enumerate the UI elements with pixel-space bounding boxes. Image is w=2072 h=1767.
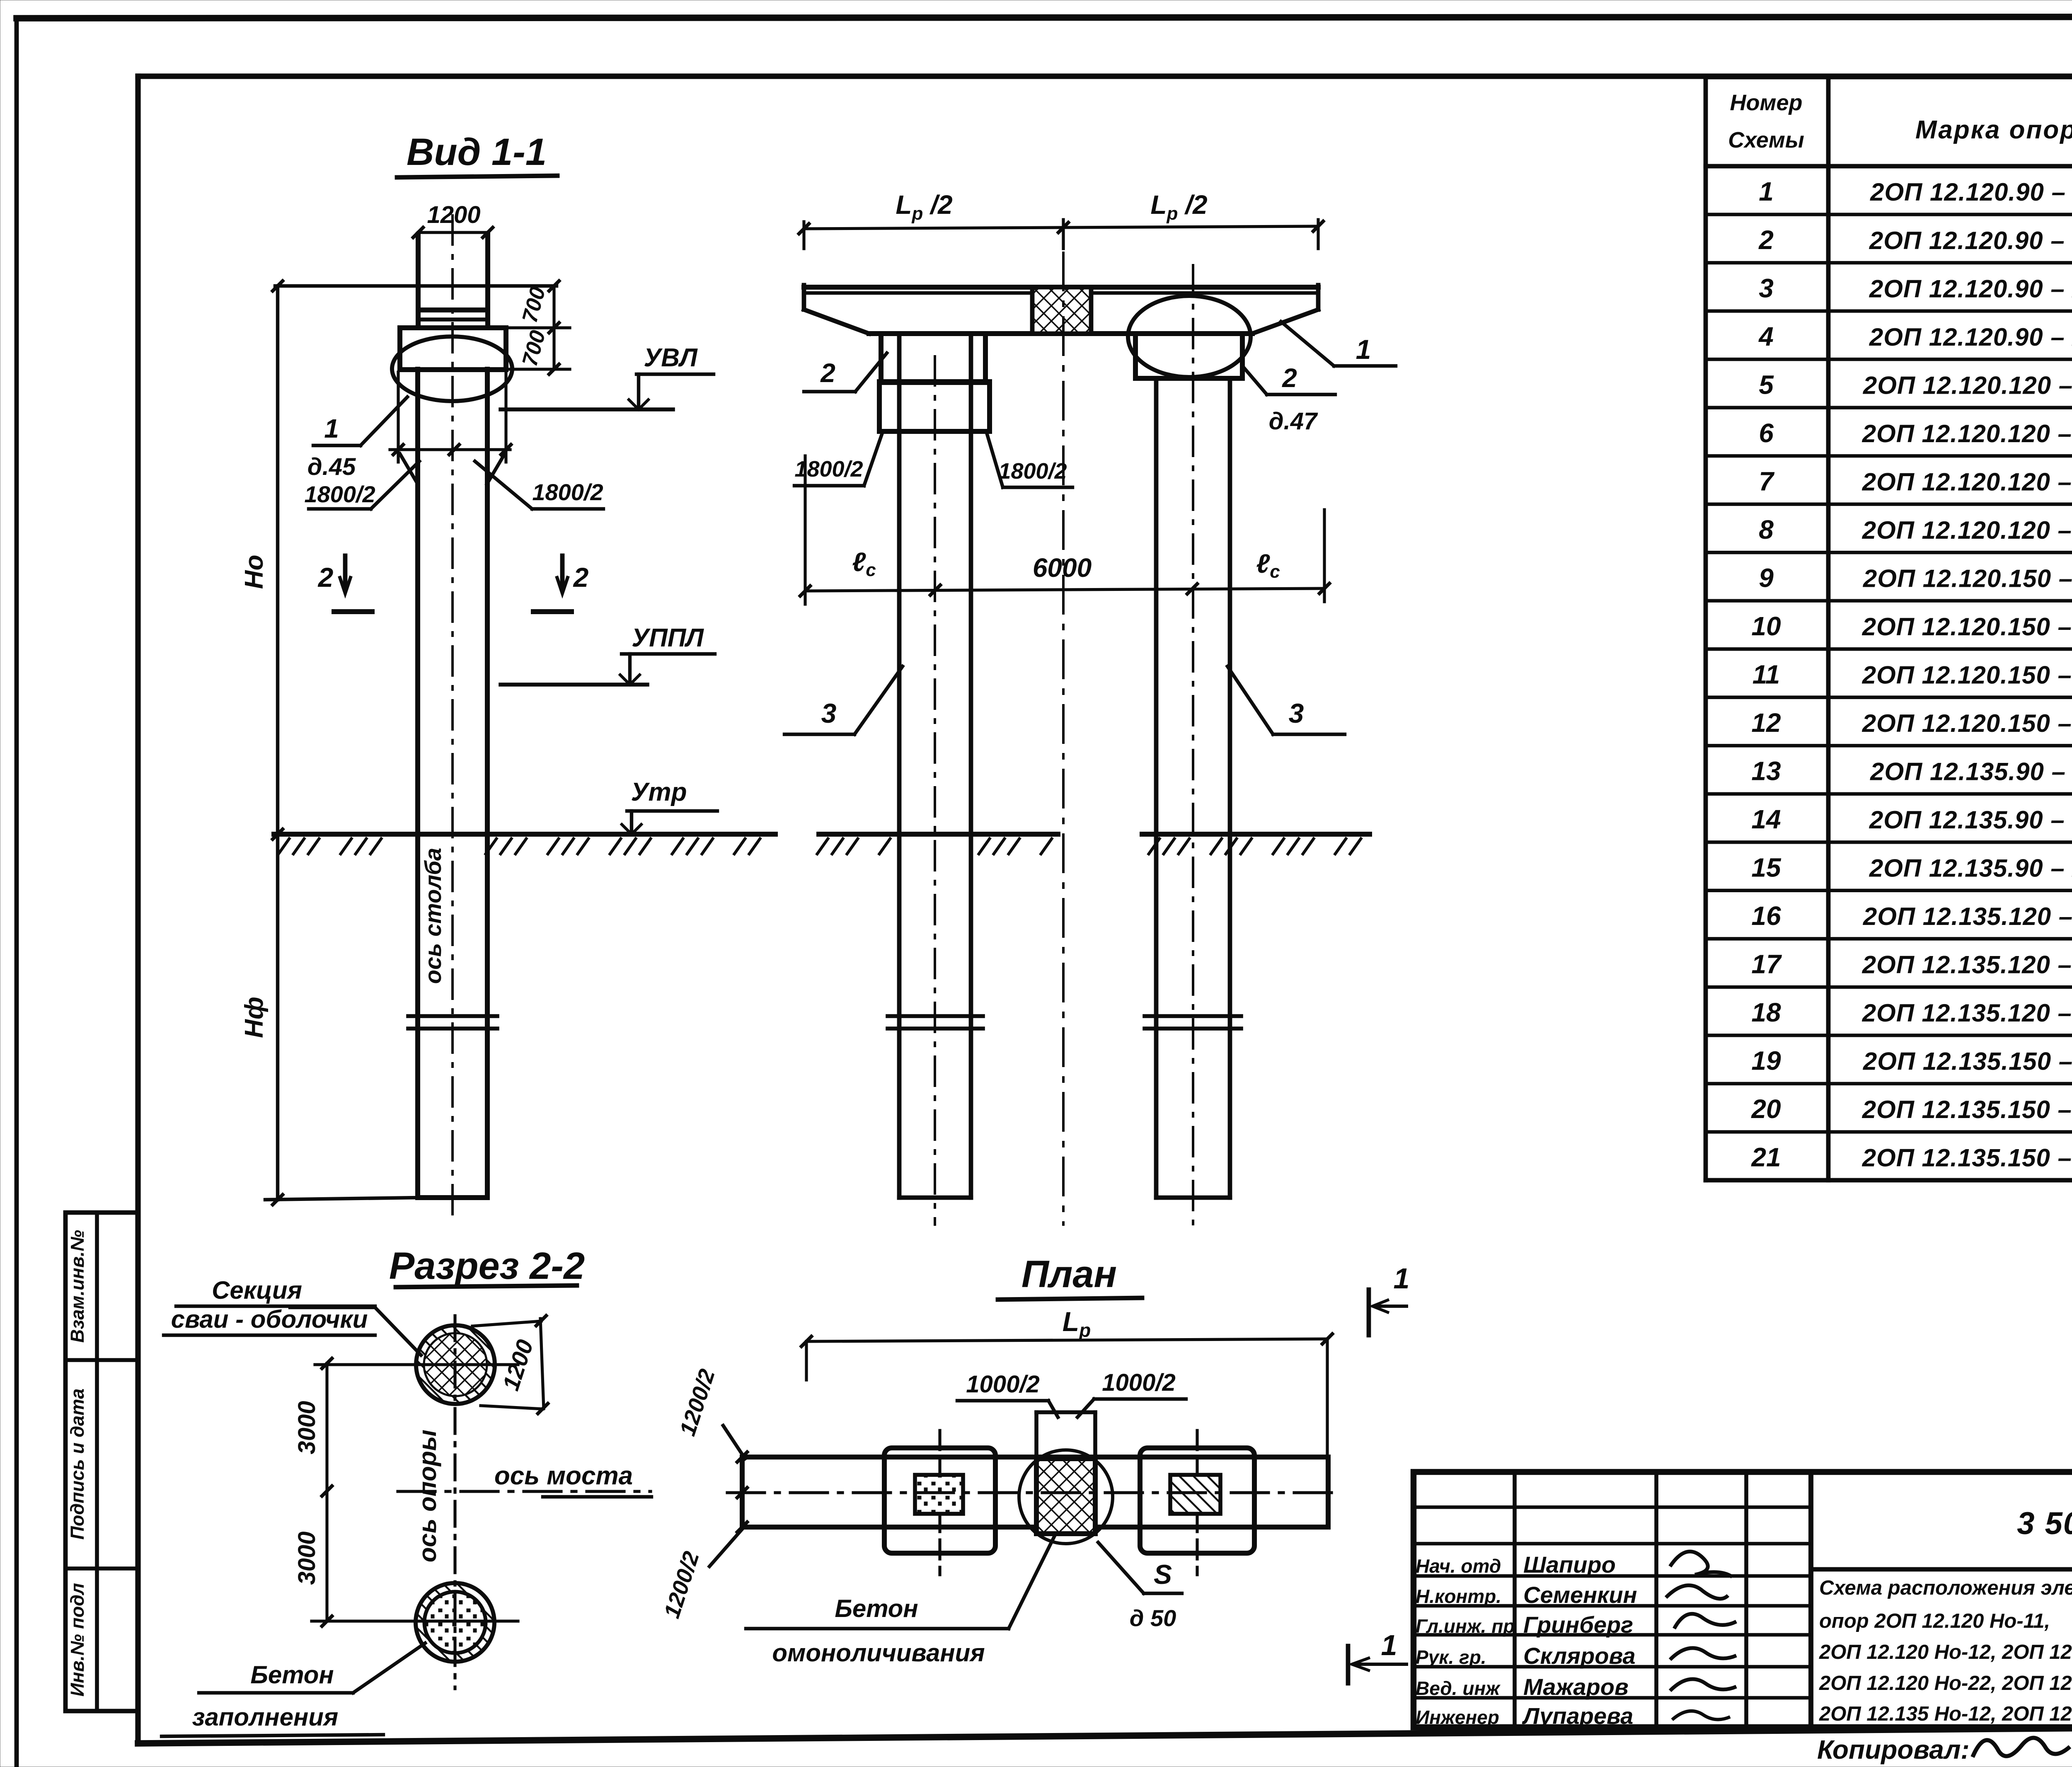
- svg-text:Вед. инж: Вед. инж: [1416, 1677, 1501, 1699]
- svg-text:Копировал:: Копировал:: [1817, 1735, 1970, 1765]
- svg-text:2ОП 12.120.90 – 11: 2ОП 12.120.90 – 11: [1870, 178, 2072, 206]
- ground line left view: [274, 832, 775, 837]
- plan left cap core: [915, 1475, 963, 1514]
- svg-text:Инженер: Инженер: [1416, 1706, 1499, 1728]
- table bottom border: [1706, 1178, 2072, 1183]
- svg-text:Инв.№ подл: Инв.№ подл: [67, 1583, 88, 1697]
- svg-text:2ОП 12.135.150 – 11: 2ОП 12.135.150 – 11: [1863, 1048, 2072, 1075]
- svg-text:Бетон: Бетон: [250, 1661, 334, 1689]
- right pile walls: [1154, 378, 1159, 1198]
- svg-text:УВЛ: УВЛ: [644, 344, 698, 372]
- left pile centerline: [934, 356, 936, 1225]
- table row 20 rule: [1706, 1082, 2072, 1085]
- left pile walls: [897, 334, 902, 1198]
- title block doc number rule: [1811, 1567, 2072, 1572]
- cap beam top chord: [804, 285, 1318, 290]
- svg-text:ось столба: ось столба: [420, 848, 446, 984]
- dim 1200 line: [418, 231, 488, 234]
- table row 3 rule: [1706, 261, 2072, 264]
- svg-text:Семенкин: Семенкин: [1523, 1582, 1637, 1608]
- svg-text:10: 10: [1751, 611, 1781, 641]
- svg-text:2ОП 12.120.90 – 12: 2ОП 12.120.90 – 12: [1869, 227, 2072, 254]
- pile taper marks: [400, 454, 418, 484]
- top reference line: [275, 284, 557, 288]
- table row 19 rule: [1706, 1034, 2072, 1037]
- under-cap half dims 1800: [390, 448, 510, 451]
- svg-text:1: 1: [1759, 177, 1774, 206]
- plan bridge axis: [727, 1491, 1339, 1494]
- svg-text:18: 18: [1751, 997, 1781, 1027]
- table row 8 rule: [1706, 502, 2072, 506]
- margin stamp divider 2: [65, 1566, 138, 1571]
- table row 12 rule: [1706, 696, 2072, 699]
- outer sheet border top: [17, 17, 2072, 18]
- svg-text:1: 1: [1394, 1262, 1410, 1295]
- section vertical dim 3000/3000: [325, 1363, 328, 1621]
- dim 700/700 line: [552, 286, 555, 369]
- table row 9 rule: [1706, 551, 2072, 554]
- svg-text:14: 14: [1751, 804, 1781, 834]
- svg-text:19: 19: [1751, 1046, 1781, 1076]
- svg-text:Но: Но: [240, 555, 269, 589]
- svg-text:2: 2: [820, 358, 835, 388]
- svg-text:21: 21: [1751, 1142, 1781, 1172]
- svg-text:Н.контр.: Н.контр.: [1416, 1585, 1501, 1607]
- plan bar outline: [742, 1457, 1328, 1527]
- left pier cap section lower: [879, 382, 990, 431]
- ground line mid view: [819, 832, 1058, 837]
- svg-text:2ОП 12.135 Но-12, 2ОП 12.135.: 2ОП 12.135 Но-12, 2ОП 12.135. Но-21: [1819, 1703, 2072, 1725]
- svg-text:15: 15: [1751, 853, 1782, 883]
- svg-text:2ОП 12.120.150 – 22: 2ОП 12.120.150 – 22: [1862, 709, 2072, 737]
- svg-text:9: 9: [1759, 563, 1774, 593]
- svg-text:Склярова: Склярова: [1523, 1643, 1636, 1669]
- svg-text:6: 6: [1759, 418, 1774, 448]
- cap ellipse: [392, 336, 512, 401]
- svg-text:17: 17: [1751, 949, 1782, 979]
- svg-text:1800/2: 1800/2: [998, 459, 1067, 484]
- table row 4 rule: [1706, 309, 2072, 312]
- svg-text:Разрез 2-2: Разрез 2-2: [389, 1245, 585, 1287]
- table row 21 rule: [1706, 1130, 2072, 1133]
- svg-text:2ОП 12.135.150 – 12: 2ОП 12.135.150 – 12: [1862, 1096, 2072, 1123]
- table row 10 rule: [1706, 599, 2072, 603]
- svg-text:Мажаров: Мажаров: [1523, 1674, 1629, 1700]
- svg-text:д.47: д.47: [1269, 408, 1318, 435]
- svg-text:омоноличивания: омоноличивания: [772, 1639, 985, 1667]
- drawing frame top: [138, 73, 2072, 79]
- svg-text:12: 12: [1751, 708, 1781, 738]
- dim Hf line: [276, 834, 279, 1200]
- svg-text:Взам.инв.№: Взам.инв.№: [67, 1230, 88, 1343]
- svg-text:д 50: д 50: [1130, 1605, 1176, 1631]
- svg-text:1: 1: [1381, 1629, 1397, 1661]
- table row 16 rule: [1706, 889, 2072, 892]
- column top block band: [418, 307, 488, 312]
- svg-text:20: 20: [1751, 1094, 1781, 1124]
- pile break symbol: [408, 1014, 497, 1018]
- drawing frame left: [135, 76, 140, 1743]
- left pile tip: [899, 1196, 971, 1200]
- pier axis dash line: [453, 1316, 456, 1689]
- svg-text:1800/2: 1800/2: [532, 479, 603, 505]
- table outer verticals: [1704, 77, 1708, 1180]
- svg-text:2: 2: [1758, 225, 1774, 255]
- svg-text:УППЛ: УППЛ: [632, 624, 704, 652]
- svg-text:2: 2: [573, 562, 589, 593]
- svg-text:1: 1: [1356, 334, 1371, 365]
- svg-text:Лупарева: Лупарева: [1522, 1703, 1633, 1729]
- svg-text:Номер: Номер: [1730, 90, 1803, 115]
- svg-text:S: S: [1154, 1559, 1172, 1590]
- svg-text:Гл.инж. пр: Гл.инж. пр: [1416, 1615, 1515, 1637]
- svg-text:Рук. гр.: Рук. гр.: [1416, 1646, 1486, 1668]
- pile shaft left wall: [415, 369, 420, 1198]
- svg-text:ось моста: ось моста: [494, 1462, 633, 1490]
- svg-text:Lp /2: Lp /2: [896, 190, 952, 224]
- pile centerline: [451, 215, 454, 1225]
- cap beam soffit: [869, 331, 1252, 336]
- svg-text:Марка опоры: Марка опоры: [1915, 116, 2072, 144]
- title block col lines: [1513, 1472, 1517, 1727]
- water level UVL line: [501, 407, 673, 411]
- svg-text:3: 3: [821, 698, 837, 729]
- plan top small square: [1034, 1412, 1038, 1457]
- svg-text:13: 13: [1751, 756, 1781, 786]
- outer sheet border left: [15, 18, 19, 1767]
- right pier cap block: [1135, 334, 1242, 378]
- svg-text:2ОП 12.135.90 – 21: 2ОП 12.135.90 – 21: [1869, 854, 2072, 882]
- svg-text:2ОП 12.120.120 – 22: 2ОП 12.120.120 – 22: [1862, 516, 2072, 544]
- table row 14 rule: [1706, 792, 2072, 796]
- svg-text:2ОП 12.135.150 – 21: 2ОП 12.135.150 – 21: [1862, 1144, 2072, 1172]
- section top shell ring: [416, 1325, 495, 1404]
- svg-text:2ОП 12.120.120 – 12: 2ОП 12.120.120 – 12: [1862, 420, 2072, 448]
- plan center pile circle: [1019, 1450, 1113, 1544]
- ground hatch left view: [278, 838, 290, 855]
- table row 15 rule: [1706, 840, 2072, 844]
- svg-text:2ОП 12.135.120 – 21: 2ОП 12.135.120 – 21: [1862, 999, 2072, 1027]
- svg-text:Шапиро: Шапиро: [1523, 1552, 1616, 1578]
- svg-text:2: 2: [1282, 363, 1297, 393]
- monolith concrete hatch block: [1032, 287, 1091, 334]
- svg-text:ось опоры: ось опоры: [414, 1430, 441, 1562]
- svg-text:Подпись и дата: Подпись и дата: [67, 1389, 88, 1540]
- svg-text:2ОП 12.120.90 – 21: 2ОП 12.120.90 – 21: [1869, 275, 2072, 303]
- svg-text:16: 16: [1751, 901, 1781, 931]
- svg-text:3: 3: [1289, 698, 1304, 729]
- svg-text:2ОП 12.120.150 – 11: 2ОП 12.120.150 – 11: [1863, 564, 2072, 592]
- plan center monolith square: [1036, 1459, 1095, 1534]
- svg-text:Схема расположения элементов: Схема расположения элементов: [1819, 1577, 2072, 1599]
- svg-text:1800/2: 1800/2: [304, 481, 375, 507]
- svg-text:3: 3: [1759, 273, 1774, 303]
- column top block walls: [416, 235, 421, 328]
- under-cap ext lines: [397, 372, 399, 462]
- mid top dim line: [804, 226, 1318, 229]
- svg-text:3000: 3000: [293, 1401, 320, 1454]
- table row 7 rule: [1706, 454, 2072, 457]
- bridge axis line: [398, 1490, 651, 1493]
- svg-text:Гринберг: Гринберг: [1523, 1612, 1633, 1638]
- svg-text:2ОП 12.135.120 – 12: 2ОП 12.135.120 – 12: [1862, 951, 2072, 979]
- drawing frame bottom: [138, 1725, 2072, 1743]
- svg-text:Утр: Утр: [631, 778, 687, 806]
- svg-text:1000/2: 1000/2: [1102, 1369, 1175, 1396]
- bottom reference line: [265, 1198, 418, 1200]
- svg-text:2ОП 12.120 Но-22, 2ОП 12.135.: 2ОП 12.120 Но-22, 2ОП 12.135. Но-11,: [1819, 1672, 2072, 1694]
- plan left edge ticks: [736, 1451, 748, 1463]
- signatures squiggles: [1670, 1552, 1732, 1577]
- svg-text:5: 5: [1759, 370, 1774, 399]
- cap beam left end: [802, 285, 806, 310]
- title block left rows: [1414, 1506, 1811, 1509]
- margin stamp divider vertical: [95, 1213, 99, 1711]
- mid piles break symbol: [888, 1014, 983, 1018]
- right pile tip: [1156, 1196, 1230, 1200]
- svg-text:Бетон: Бетон: [835, 1595, 918, 1622]
- svg-text:3 503.1- 69.1 10: 3 503.1- 69.1 10: [2017, 1506, 2072, 1541]
- svg-text:2ОП 12.135.120 – 11: 2ОП 12.135.120 – 11: [1863, 903, 2072, 930]
- svg-text:2: 2: [317, 562, 334, 593]
- svg-text:8: 8: [1759, 515, 1774, 545]
- plan right cap core: [1170, 1475, 1220, 1514]
- plan left cap square: [884, 1448, 995, 1553]
- pile tip: [418, 1195, 487, 1200]
- svg-text:11: 11: [1752, 659, 1780, 689]
- svg-text:Нф: Нф: [240, 997, 269, 1038]
- svg-text:2ОП 12.120.120 – 11: 2ОП 12.120.120 – 11: [1863, 371, 2072, 399]
- left pier cap section outer: [881, 334, 985, 382]
- svg-text:опор 2ОП 12.120 Но-11,: опор 2ОП 12.120 Но-11,: [1819, 1610, 2050, 1632]
- svg-text:2ОП 12.135.90 – 11: 2ОП 12.135.90 – 11: [1870, 758, 2072, 786]
- margin stamp box: [65, 1213, 138, 1711]
- svg-text:д.45: д.45: [307, 453, 356, 480]
- svg-text:Секция: Секция: [212, 1276, 302, 1304]
- svg-text:7: 7: [1759, 466, 1775, 496]
- svg-text:6000: 6000: [1033, 553, 1092, 583]
- table header bottom: [1706, 164, 2072, 169]
- pier centerline: [1062, 253, 1065, 1225]
- svg-text:3000: 3000: [293, 1531, 320, 1585]
- table row 6 rule: [1706, 406, 2072, 409]
- svg-text:2ОП 12.120.120 – 21: 2ОП 12.120.120 – 21: [1862, 468, 2072, 496]
- pile shaft right wall: [485, 369, 490, 1198]
- svg-text:2ОП 12.120.150 – 21: 2ОП 12.120.150 – 21: [1862, 661, 2072, 689]
- right pile centerline: [1192, 265, 1194, 1225]
- table top border: [1706, 75, 2072, 80]
- svg-text:2ОП 12.135.90 – 12: 2ОП 12.135.90 – 12: [1869, 806, 2072, 834]
- svg-text:2ОП 12.120.90 – 22: 2ОП 12.120.90 – 22: [1869, 323, 2072, 351]
- table row 13 rule: [1706, 744, 2072, 747]
- dim Ho line: [276, 286, 279, 834]
- svg-text:Нач. отд: Нач. отд: [1416, 1555, 1501, 1577]
- svg-text:Схемы: Схемы: [1728, 128, 1804, 152]
- margin stamp divider 1: [65, 1358, 138, 1362]
- svg-text:заполнения: заполнения: [192, 1703, 338, 1731]
- table row 18 rule: [1706, 985, 2072, 989]
- svg-text:Вид 1-1: Вид 1-1: [407, 131, 547, 173]
- svg-text:4: 4: [1758, 322, 1774, 351]
- svg-text:1000/2: 1000/2: [966, 1371, 1039, 1398]
- section circle center lines: [315, 1363, 518, 1366]
- svg-text:сваи - оболочки: сваи - оболочки: [171, 1305, 368, 1333]
- svg-text:План: План: [1021, 1253, 1117, 1295]
- svg-text:2ОП 12.120.150 – 12: 2ОП 12.120.150 – 12: [1862, 613, 2072, 641]
- svg-text:Lp /2: Lp /2: [1150, 190, 1207, 224]
- table row 11 rule: [1706, 647, 2072, 651]
- dim 1200 section: [540, 1319, 544, 1409]
- table row 5 rule: [1706, 358, 2072, 361]
- level UPPL line: [501, 683, 647, 687]
- cap beam right end: [1316, 285, 1321, 310]
- svg-text:2ОП 12.120 Но-12, 2ОП 12.120.Н: 2ОП 12.120 Но-12, 2ОП 12.120.Но-21,: [1819, 1641, 2072, 1663]
- ground hatch mid view: [816, 838, 829, 855]
- table row 2 rule: [1706, 213, 2072, 216]
- plan right cap square: [1140, 1448, 1254, 1553]
- right pier cap ellipse: [1128, 296, 1251, 377]
- title block outer: [1414, 1472, 2072, 1727]
- mid bottom dim line: [805, 588, 1324, 591]
- section bottom shell ring: [416, 1583, 494, 1662]
- column cap block: [400, 328, 506, 370]
- table row 17 rule: [1706, 937, 2072, 940]
- svg-text:1: 1: [324, 414, 339, 443]
